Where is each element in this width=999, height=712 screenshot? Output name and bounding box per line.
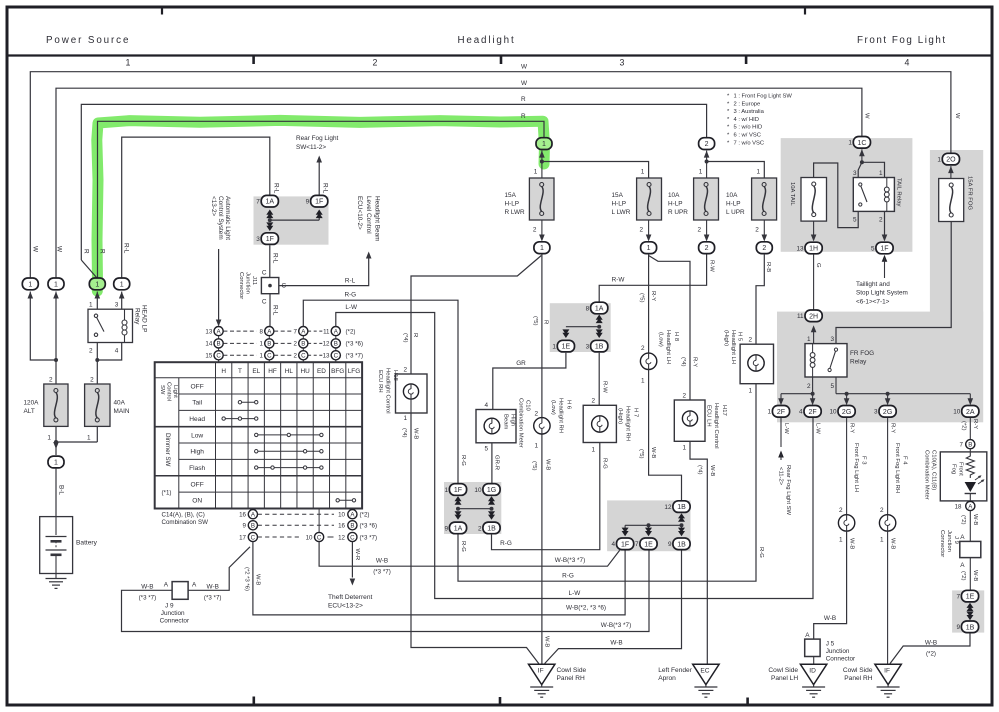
svg-text:1: 1 [540, 245, 544, 252]
svg-text:15A: 15A [505, 192, 517, 199]
svg-text:2: 2 [403, 366, 407, 373]
H18 headlight control ECU RH [396, 374, 428, 413]
svg-text:C: C [301, 353, 306, 360]
svg-text:R UPR: R UPR [668, 209, 688, 216]
svg-text:12: 12 [664, 504, 672, 511]
svg-text:1 : Front Fog Light SW: 1 : Front Fog Light SW [734, 94, 793, 100]
R-W wire: R UPR fuse to 8(1A) [599, 254, 706, 302]
svg-text:(*3 *7): (*3 *7) [346, 353, 364, 360]
svg-text:4: 4 [799, 409, 803, 416]
svg-text:Cowl Side: Cowl Side [843, 667, 873, 674]
svg-text:1: 1 [756, 169, 760, 176]
svg-text:Junction: Junction [161, 610, 185, 617]
svg-text:Flash: Flash [189, 465, 205, 472]
svg-text:FR FOG: FR FOG [850, 350, 874, 357]
svg-text:3: 3 [620, 58, 625, 68]
svg-text:1: 1 [47, 435, 51, 442]
svg-text:C: C [262, 270, 267, 277]
svg-text:Headlight RH: Headlight RH [557, 398, 563, 433]
svg-text:W-B: W-B [376, 557, 388, 564]
svg-text:F 4: F 4 [902, 456, 908, 465]
svg-text:J 5: J 5 [826, 640, 835, 647]
svg-text:2: 2 [373, 58, 378, 68]
svg-text:R: R [412, 333, 418, 337]
svg-text:(Low): (Low) [658, 332, 664, 347]
svg-text:A: A [960, 534, 965, 541]
svg-text:EL: EL [252, 368, 260, 375]
svg-text:R-Y: R-Y [650, 291, 656, 301]
wires 1C to TAIL relay pins 3,1 [858, 162, 862, 177]
J9 junction connector (left) [188, 547, 250, 591]
wire R-L [122, 137, 270, 277]
R-G wire 1B down to H7 [492, 443, 600, 550]
svg-text:ALT: ALT [24, 408, 35, 415]
svg-text:10: 10 [474, 487, 482, 494]
svg-text:Cowl Side: Cowl Side [768, 667, 798, 674]
taillight and stop light system arrow [882, 255, 888, 262]
svg-text:Headlight RH: Headlight RH [625, 406, 631, 441]
svg-text:R-G: R-G [601, 458, 607, 469]
svg-text:W: W [55, 246, 62, 253]
svg-text:W-B: W-B [925, 640, 937, 647]
svg-text:W: W [521, 63, 528, 70]
svg-text:2O: 2O [946, 157, 956, 164]
svg-text:6 : w/ VSC: 6 : w/ VSC [734, 133, 761, 139]
svg-text:W-B(*2, *3 *6): W-B(*2, *3 *6) [566, 605, 606, 612]
wire W-B(+2+3+6) bus: 17(C) to 4(1F) [253, 542, 625, 615]
svg-text:(*4): (*4) [402, 333, 408, 343]
svg-text:Rear Fog Light SW: Rear Fog Light SW [785, 465, 791, 516]
svg-text:1F: 1F [880, 246, 888, 253]
svg-text:Taillight and: Taillight and [856, 281, 890, 288]
svg-text:H-LP: H-LP [505, 201, 520, 208]
svg-text:Power Source: Power Source [46, 35, 130, 46]
svg-text:15A FR FOG: 15A FR FOG [967, 176, 973, 210]
svg-text:9: 9 [668, 541, 672, 548]
svg-text:13: 13 [205, 328, 212, 335]
connector 7(1E)/9(1B) right pair [967, 603, 974, 608]
svg-text:(*5): (*5) [638, 293, 644, 303]
svg-text:R-Y: R-Y [692, 357, 698, 367]
svg-text:MAIN: MAIN [114, 408, 130, 415]
svg-text:1: 1 [839, 537, 843, 544]
svg-text:Tail: Tail [192, 400, 202, 407]
R-Y(+2) wire 2A to 7(B) [969, 418, 971, 440]
R wire: R LWR to H18 ECU [411, 256, 541, 375]
wire R bus 2 (highlighted) [98, 121, 545, 277]
svg-text:Junction: Junction [245, 272, 251, 294]
svg-text:W-B: W-B [413, 428, 419, 439]
svg-text:1: 1 [120, 281, 124, 288]
svg-text:1F: 1F [454, 487, 462, 494]
svg-text:1: 1 [403, 415, 407, 422]
svg-text:1: 1 [89, 302, 93, 309]
svg-text:Panel RH: Panel RH [557, 675, 585, 682]
relay outputs bus [812, 377, 814, 394]
R-G wire from 7(A) to 1F [303, 300, 458, 483]
svg-text:1: 1 [534, 443, 538, 450]
svg-text:W-B: W-B [972, 570, 978, 581]
svg-text:R LWR: R LWR [505, 209, 526, 216]
svg-text:(*3 *7): (*3 *7) [139, 594, 157, 601]
connector 7(1A), 9(1F), 3(1F) group [268, 218, 272, 222]
svg-text:2: 2 [807, 383, 811, 390]
wires relay to MAIN [96, 296, 98, 309]
svg-text:40A: 40A [114, 400, 126, 407]
svg-text:17: 17 [239, 534, 246, 541]
svg-text:B: B [350, 523, 354, 530]
svg-text:1E: 1E [644, 541, 653, 548]
combination switch table [155, 362, 362, 508]
svg-text:R-G: R-G [460, 455, 466, 466]
svg-text:(*5): (*5) [638, 449, 644, 459]
svg-text:IF: IF [538, 668, 544, 675]
A/B/C connector rows above table [223, 330, 256, 332]
svg-text:(*3 *6): (*3 *6) [360, 523, 378, 530]
svg-text:H 5: H 5 [736, 332, 742, 342]
svg-text:W-B: W-B [889, 538, 895, 549]
svg-text:2: 2 [748, 337, 752, 344]
automatic light control system arrow [218, 249, 220, 320]
svg-text:1: 1 [54, 460, 58, 467]
svg-text:(High): (High) [723, 330, 729, 346]
R-Y wire: L LWR to H8 and H17 ECU [648, 254, 650, 353]
svg-text:16: 16 [239, 512, 246, 519]
svg-text:F 3: F 3 [861, 456, 867, 465]
svg-text:C: C [262, 299, 267, 306]
svg-text:L LWR: L LWR [612, 209, 631, 216]
svg-text:Head: Head [189, 416, 205, 423]
svg-text:W-B: W-B [544, 636, 550, 647]
connector row 2F 2F 2G 2G 2A [772, 406, 789, 418]
svg-text:1A: 1A [454, 525, 463, 532]
svg-text:High: High [510, 414, 516, 426]
svg-text:1: 1 [699, 169, 703, 176]
svg-text:Relay: Relay [134, 308, 141, 325]
svg-text:2H: 2H [809, 313, 818, 320]
svg-text:BFG: BFG [331, 368, 344, 375]
wire W-B H6 to ground IF [541, 434, 543, 664]
fuse 10A TAIL [801, 178, 827, 222]
svg-text:GR-R: GR-R [493, 455, 499, 470]
relay pin2 to 5(1F) [884, 211, 886, 235]
svg-text:1E: 1E [562, 344, 571, 351]
svg-text:R: R [543, 320, 549, 324]
svg-text:10: 10 [306, 534, 313, 541]
svg-text:(*2): (*2) [360, 512, 370, 519]
svg-text:R-L: R-L [122, 243, 129, 254]
svg-text:R-G: R-G [562, 573, 574, 580]
junction below fuses [55, 426, 57, 455]
svg-text:1A: 1A [595, 306, 604, 313]
wire W bus 1 [30, 72, 951, 278]
svg-text:R-L: R-L [273, 183, 280, 194]
oval connector 2 above R UPR [699, 138, 715, 150]
svg-text:A: A [192, 582, 197, 589]
svg-text:R-G: R-G [460, 541, 466, 552]
svg-text:(*4): (*4) [696, 465, 702, 475]
oval 1(1C) [853, 137, 870, 149]
svg-text:High: High [190, 449, 204, 456]
svg-text:R-W: R-W [612, 277, 626, 284]
svg-text:4: 4 [905, 58, 910, 68]
svg-text:(*4): (*4) [680, 357, 686, 367]
svg-text:1B: 1B [487, 525, 496, 532]
svg-text:14: 14 [205, 341, 212, 348]
svg-text:Relay: Relay [850, 359, 867, 366]
svg-text:4: 4 [484, 402, 488, 409]
svg-text:5: 5 [871, 245, 875, 252]
svg-text:1B: 1B [966, 624, 975, 631]
GR wire: 1E to high-beam indicator [493, 353, 566, 410]
connector 1F/1G/1A/1B group [456, 507, 460, 511]
svg-text:H-LP: H-LP [668, 201, 683, 208]
svg-text:<13-2>: <13-2> [210, 196, 217, 217]
svg-text:7: 7 [960, 442, 964, 449]
svg-text:1: 1 [880, 537, 884, 544]
svg-text:1: 1 [641, 169, 645, 176]
svg-text:Front: Front [958, 462, 964, 476]
svg-text:B: B [301, 341, 305, 348]
wire W-B H18 to ground IF [411, 413, 539, 664]
svg-text:Headlight LH: Headlight LH [665, 330, 671, 364]
svg-text:7: 7 [956, 594, 960, 601]
svg-text:Connector: Connector [160, 617, 190, 624]
relay HEAD LP [88, 309, 133, 342]
svg-text:Low: Low [191, 432, 203, 439]
svg-text:2: 2 [478, 525, 482, 532]
connector rows below table [252, 509, 254, 510]
svg-text:W-B: W-B [824, 615, 836, 622]
svg-text:L-W: L-W [345, 304, 358, 311]
svg-text:7 : w/o VSC: 7 : w/o VSC [734, 140, 765, 146]
svg-text:H-LP: H-LP [726, 201, 741, 208]
wire 9(1F) up to Rear Fog Light SW [318, 162, 320, 195]
svg-text:Light: Light [172, 385, 178, 398]
svg-text:Panel LH: Panel LH [771, 675, 798, 682]
svg-text:Headlight Control: Headlight Control [385, 368, 391, 414]
svg-text:4: 4 [115, 347, 119, 354]
battery ground [55, 574, 57, 579]
svg-text:R-G: R-G [344, 292, 356, 299]
svg-text:Combination SW: Combination SW [162, 519, 209, 526]
svg-text:L UPR: L UPR [726, 209, 745, 216]
svg-text:1H: 1H [809, 246, 818, 253]
wire W-B bus 9(1B) to ground IF [545, 550, 682, 663]
connector row 1 (x4 ovals) [22, 278, 38, 290]
svg-text:1: 1 [542, 141, 546, 148]
svg-text:H18: H18 [392, 370, 398, 382]
svg-text:1: 1 [937, 157, 941, 164]
svg-text:3: 3 [586, 344, 590, 351]
svg-text:A: A [805, 632, 810, 639]
svg-text:LFG: LFG [348, 368, 360, 375]
svg-text:1B: 1B [677, 504, 686, 511]
svg-text:2: 2 [641, 345, 645, 352]
svg-text:(*2): (*2) [961, 421, 967, 431]
relay TAIL [853, 178, 894, 212]
svg-text:L-W: L-W [814, 423, 820, 434]
svg-text:GR: GR [516, 360, 526, 367]
svg-text:120A: 120A [24, 400, 40, 407]
svg-text:Rear Fog Light: Rear Fog Light [296, 135, 338, 142]
svg-text:TAIL Relay: TAIL Relay [896, 178, 902, 207]
svg-text:2: 2 [533, 227, 537, 234]
W-B(-5) wire H8 to 12(1B) [649, 370, 682, 501]
svg-text:Headlight: Headlight [458, 35, 516, 46]
svg-text:Connector: Connector [238, 272, 244, 299]
svg-text:3: 3 [256, 236, 260, 243]
svg-text:HEAD LP: HEAD LP [141, 305, 148, 332]
svg-text:1F: 1F [315, 199, 323, 206]
C10 high beam indicator [476, 410, 516, 443]
svg-text:C10(A), C11(B): C10(A), C11(B) [931, 450, 937, 490]
svg-text:1: 1 [879, 170, 883, 177]
svg-text:R: R [83, 249, 90, 254]
svg-text:B: B [968, 442, 972, 449]
svg-text:Headlight Beam: Headlight Beam [374, 196, 381, 241]
svg-text:5: 5 [484, 446, 488, 453]
wire W-B(+3+7) bus: 10(C) to 4(1F) [319, 542, 620, 566]
svg-text:2 : Europe: 2 : Europe [734, 101, 761, 107]
svg-text:1: 1 [260, 341, 264, 348]
svg-text:R-L: R-L [272, 253, 279, 264]
svg-text:1G: 1G [487, 487, 496, 494]
G wire 1H to 2H [813, 255, 815, 310]
svg-text:(*3 *7): (*3 *7) [373, 569, 391, 576]
svg-text:1: 1 [260, 353, 264, 360]
svg-text:W-B: W-B [610, 640, 622, 647]
svg-text:Left Fender: Left Fender [658, 667, 693, 674]
svg-text:H 6: H 6 [565, 400, 571, 410]
svg-text:1: 1 [848, 140, 852, 147]
front fog indicator C10(A) C11(B) combination meter [969, 449, 971, 452]
W-B(+4) wire H17 to ground EC [690, 441, 707, 664]
fuse 15A H-LP L LWR [637, 178, 662, 220]
svg-text:(*3 *6): (*3 *6) [346, 341, 364, 348]
svg-text:Battery: Battery [76, 540, 98, 547]
svg-text:1B: 1B [595, 344, 604, 351]
J11 R-L wire right to headlight beam level control [279, 258, 369, 286]
svg-text:7: 7 [256, 199, 260, 206]
svg-text:1: 1 [552, 344, 556, 351]
svg-text:H: H [221, 368, 226, 375]
svg-text:W-B(*3 *7): W-B(*3 *7) [601, 622, 631, 629]
svg-text:11: 11 [797, 313, 804, 320]
GR-R wire to 1G [491, 443, 493, 483]
svg-text:7: 7 [635, 541, 639, 548]
W-B(+2) to ground IF [890, 633, 970, 663]
svg-text:ID: ID [809, 668, 816, 675]
svg-text:Cowl Side: Cowl Side [557, 667, 587, 674]
svg-text:W-B: W-B [972, 514, 978, 525]
svg-text:16: 16 [338, 523, 345, 530]
svg-text:Junction: Junction [826, 648, 850, 655]
svg-text:1: 1 [87, 435, 91, 442]
R-B wire: L UPR to H5 [756, 254, 764, 344]
svg-text:(*3 *7): (*3 *7) [204, 594, 222, 601]
W-B(+2) wire through J9 right [969, 511, 971, 542]
svg-text:T: T [238, 368, 242, 375]
svg-text:J 9: J 9 [953, 536, 959, 544]
svg-text:R-Y: R-Y [848, 423, 854, 433]
svg-text:L-W: L-W [783, 423, 789, 434]
svg-text:H17: H17 [721, 405, 727, 416]
svg-text:Headlight Control: Headlight Control [713, 403, 719, 449]
svg-text:G: G [815, 263, 821, 268]
bulb F4 front fog light RH [879, 515, 895, 531]
W-B F3 to J5 to ground ID [814, 531, 847, 639]
svg-text:1: 1 [767, 409, 771, 416]
svg-text:W-B: W-B [207, 584, 219, 591]
svg-text:(*5): (*5) [532, 316, 538, 326]
svg-text:3: 3 [853, 170, 857, 177]
connector 8(1A)/1(1E)/3(1B) group [597, 325, 601, 329]
svg-text:1: 1 [28, 281, 32, 288]
svg-text:2: 2 [534, 410, 538, 417]
svg-text:1C: 1C [857, 140, 866, 147]
fuse 40A MAIN [85, 384, 110, 426]
svg-text:1: 1 [444, 487, 448, 494]
fuse 15A H-LP R LWR [529, 178, 554, 220]
svg-text:(*1): (*1) [162, 490, 172, 497]
svg-text:<11-2>: <11-2> [778, 467, 784, 486]
svg-text:Combination Meter: Combination Meter [518, 398, 524, 448]
svg-text:C: C [251, 534, 256, 541]
svg-text:2: 2 [89, 347, 93, 354]
svg-text:1: 1 [682, 445, 686, 452]
svg-text:2G: 2G [842, 409, 851, 416]
bulb H8 headlight LH low [640, 353, 656, 369]
svg-text:10A TAIL: 10A TAIL [789, 182, 795, 206]
svg-text:1: 1 [591, 447, 595, 454]
svg-text:9: 9 [306, 199, 310, 206]
svg-text:SW: SW [159, 385, 165, 395]
svg-text:W-B: W-B [255, 574, 261, 585]
svg-text:Fog: Fog [951, 464, 957, 474]
svg-text:1B: 1B [677, 541, 686, 548]
svg-text:W-B: W-B [545, 459, 551, 470]
svg-text:1: 1 [641, 377, 645, 384]
svg-text:10: 10 [829, 409, 837, 416]
svg-text:Front Fog Light RH: Front Fog Light RH [894, 443, 900, 493]
svg-text:L-W: L-W [569, 590, 582, 597]
svg-text:Panel RH: Panel RH [844, 675, 872, 682]
svg-text:Theft Deterrent: Theft Deterrent [328, 594, 373, 601]
svg-text:Control System: Control System [217, 196, 224, 240]
svg-text:Connector: Connector [826, 655, 856, 662]
svg-text:(Low): (Low) [550, 400, 556, 415]
svg-text:2G: 2G [883, 409, 892, 416]
svg-text:1: 1 [534, 169, 538, 176]
svg-text:W-B: W-B [141, 584, 153, 591]
R(-5) wire: R LWR to H6 [541, 254, 543, 418]
svg-text:<6-1><7-1>: <6-1><7-1> [856, 298, 890, 305]
svg-text:1: 1 [807, 336, 811, 343]
svg-text:11: 11 [323, 328, 330, 335]
svg-text:Automatic Light: Automatic Light [224, 196, 231, 240]
bulb F3 front fog light LH [838, 515, 854, 531]
svg-text:2: 2 [879, 217, 883, 224]
svg-text:(*2): (*2) [960, 571, 966, 581]
svg-text:15: 15 [205, 353, 212, 360]
svg-text:B: B [251, 523, 255, 530]
svg-text:HL: HL [285, 368, 294, 375]
svg-text:1: 1 [647, 245, 651, 252]
svg-text:R: R [521, 96, 526, 103]
svg-text:ECU RH: ECU RH [377, 370, 383, 393]
svg-text:R-W: R-W [601, 381, 607, 393]
